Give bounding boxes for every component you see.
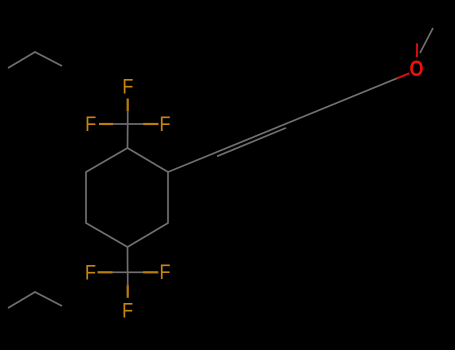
top CF3: C-F bond left, fluorine half [99,123,113,125]
O-CH3 bond gray half (slanted) [420,28,433,53]
svg-text:F: F [122,299,133,323]
top CF3: C-F bond right, carbon half [128,123,143,125]
bottom-left fragment zigzag [8,292,62,308]
bottom CF3: C-F bond right, fluorine half [143,271,158,273]
svg-text:O: O [409,57,423,81]
svg-text:F: F [85,113,96,137]
benzene ring (hexagon) [86,148,168,247]
wire ring C1 to top CF3 carbon [127,124,129,148]
bottom CF3: C-F bond down, fluorine half [127,285,129,298]
bottom CF3: C-F bond left, carbon half [113,271,128,273]
red half of chain bond at O [397,73,410,78]
top CF3: C-F bond up, fluorine half [127,99,129,112]
top-left fragment zigzag [8,52,62,68]
O-CH3 bond red half (vertical tick above O) [416,43,418,57]
bottom CF3: C-F bond left, fluorine half [98,271,113,273]
svg-text:F: F [85,261,96,285]
svg-text:F: F [159,261,170,285]
bottom CF3: C-F bond right, carbon half [128,271,143,273]
top CF3: C-F bond right, fluorine half [143,123,158,125]
chain main line from ring to O [168,74,408,172]
top CF3: C-F bond up, carbon half [127,111,129,124]
svg-text:F: F [122,75,133,99]
bottom CF3: C-F bond down, carbon half [127,272,129,285]
chain double-bond parallel line [217,128,286,156]
wire ring C4 to bottom CF3 carbon [127,247,129,272]
svg-text:F: F [159,113,170,137]
top CF3: C-F bond left, carbon half [113,123,127,125]
